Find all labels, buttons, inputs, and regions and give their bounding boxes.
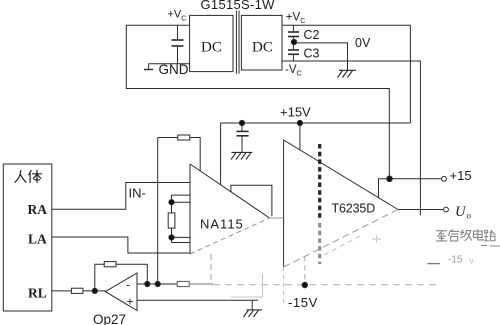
人体 human body box [3,164,52,311]
ghost echo text underline marks [481,245,487,247]
label 至后级电路 drawn strokes [436,229,495,241]
resistor R2 (Op27 feedback) [104,262,116,267]
wire: +Vcc left loop from left DC to +15 node [126,25,389,179]
电 [473,229,483,240]
wire: feedback from output node up [95,264,104,291]
ghost echo dash right [427,263,440,265]
wire: NA115 output sense loop [231,185,272,216]
svg-text:GND: GND [159,62,189,77]
ghost echo L near ground [231,273,263,297]
node junction +15 [387,176,393,182]
node junction RG bottom [169,235,174,240]
svg-text:-: - [126,278,130,292]
terminal +15 [442,176,447,181]
terminal Uo [444,207,449,212]
至 [436,231,447,241]
wire: +Vc from right DC to right vertical [282,25,410,123]
svg-text:+15V: +15V [280,105,311,120]
node junction -15V [302,282,307,287]
label 人体 drawn strokes [15,170,42,182]
后 [449,230,460,241]
wire: T6235D V- stub (ghost) [304,256,306,285]
wire RL electrode with series resistor [52,290,72,292]
svg-text:RL: RL [28,286,47,301]
capacitor C4 (+15V decoupling) [241,123,243,131]
ghost echo diagonal of T6235D bottom edge [324,236,360,255]
svg-text:NA115: NA115 [200,217,244,232]
svg-text:DC: DC [201,40,222,56]
T6235D bottom edge (faint) [284,210,398,268]
svg-text:-15V: -15V [288,295,318,310]
wire: resistor R3 to -15V rail [189,283,213,285]
resistor RG [168,213,175,228]
wire: GND wire from left DC [149,63,190,65]
transformer isolation divider between DC boxes [235,11,237,74]
svg-text:T6235D: T6235D [332,202,376,216]
wire: Op27 inverting input line [137,283,177,285]
wire: +15V rail [221,123,411,185]
svg-text:G1515S-1W: G1515S-1W [201,0,276,12]
resistor R1 (RL series) [71,288,83,293]
级 [460,230,471,241]
ground GND tick symbol [148,64,150,70]
svg-text:IN-: IN- [129,186,146,201]
wire: top resistor left lead [158,137,178,139]
capacitor C2 [292,25,294,32]
ground below C4 [231,152,252,159]
isolation amp U5 T6235D [284,140,398,267]
wire: top resistor right lead down to NA115 top edge [190,138,201,172]
svg-text:RA: RA [28,202,48,217]
svg-text:C2: C2 [304,28,320,42]
resistor R4 (NA115 ref/feedback) [178,135,190,140]
capacitor C3 [288,49,299,51]
wire LA electrode [52,237,190,253]
ghost echo vertical below T6235D edge [283,267,285,303]
路 [484,230,495,241]
wire: NA115 V- stub (ghost) [210,254,212,285]
DC-DC module U2 box (left DC) [190,15,233,71]
svg-text:0V: 0V [355,36,371,50]
svg-text:+15: +15 [450,168,472,183]
ground below Op27 + input [244,310,263,317]
op-amp U4 Op27 (points left) [105,273,137,311]
node junction feedback/inverting [145,281,150,286]
svg-text:C3: C3 [304,47,320,61]
svg-text:DC: DC [252,40,273,56]
wire: Uo output line [398,209,443,211]
node junction C2/C3 midpoint [291,39,296,44]
RG pin stubs top [172,194,191,196]
instrumentation amp U1 NA115 [189,164,191,254]
ghost echo marks right [372,238,381,240]
wire: 0V branch from C2/C3 midpoint [293,43,347,70]
svg-text:v: v [470,257,474,266]
RG pin stubs bottom [171,228,173,242]
wire: -Vc from right DC down to Uo line [282,61,420,215]
isolation barrier dashed [318,144,321,220]
wire: -15V rail (ghosted) [213,284,436,286]
wire: +15V drop to T6235D [299,123,301,150]
svg-text:Op27: Op27 [93,312,126,325]
node junction on +15V rail at C4 [239,120,244,125]
svg-text:o: o [467,211,472,221]
wire: Op27 non-inverting input to ground [137,299,258,301]
node junction on +15V rail at T6235D drop [297,120,302,125]
node junction long vertical/inverting [155,281,160,286]
wire: NA115 tip to T6235D [270,217,284,219]
node junction RG top [169,200,174,205]
DC-DC module U3 box (right DC) [241,15,282,70]
capacitor C1 (left decoupling cap) [177,25,179,40]
ground 0V earth symbol [338,70,357,77]
svg-text:-15: -15 [448,255,463,266]
svg-text:LA: LA [28,232,47,247]
wire RA electrode [52,183,190,210]
node junction at Op27 output [92,288,97,293]
wire: long feedback vertical [157,138,159,285]
svg-text:U: U [455,204,467,220]
resistor R3 (inverting input series) [177,281,189,286]
wire: +15 node branches [379,179,390,198]
svg-text:+: + [127,295,134,309]
